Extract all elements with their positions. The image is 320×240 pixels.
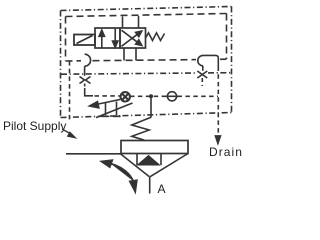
label Drain (209, 145, 243, 159)
seat diagonal right (150, 154, 188, 177)
valve V1 square2 crossed arrows (122, 30, 142, 46)
relief valve RV1 legs (105, 103, 107, 115)
wire manifold dashed line right part (208, 72, 231, 74)
spring S2 main valve (132, 117, 151, 140)
orifice O1 (166, 92, 178, 101)
wire manifold dashed line (61, 73, 197, 74)
seat diagonal left (121, 154, 150, 177)
valve V1 square1 up arrow (99, 29, 118, 48)
valve V1 position square 2 (120, 28, 146, 48)
wire junction to spring (150, 96, 152, 117)
wire right drop continue (201, 78, 203, 86)
label A (158, 182, 166, 196)
valve V1 square1 down arrow (114, 29, 116, 41)
relief valve RV1 leg feet (102, 115, 110, 117)
wire drain line (217, 67, 219, 136)
wire pilot dashed line (95, 95, 120, 97)
poppet triangle (138, 156, 160, 166)
solenoid U1 coil box (74, 35, 95, 46)
drain arrowhead (215, 136, 220, 144)
wire top port lines (122, 17, 124, 29)
wire left drop continue (84, 84, 86, 88)
valve V1 position square 1 (95, 28, 120, 48)
node junction dot (149, 94, 153, 98)
node plug X left (80, 77, 91, 84)
wire pilot supply vertical (69, 61, 71, 123)
wire left connector drop (84, 66, 86, 76)
relief valve RV1 arrow (90, 100, 121, 108)
enclosure inner dashed box (pilot valve subplate) (66, 14, 227, 62)
node circle X gauge (121, 92, 130, 101)
wire port A line (149, 177, 151, 194)
spring S1 on valve right (146, 33, 165, 41)
main valve body rectangle (121, 141, 188, 154)
wire left port line (66, 153, 121, 155)
node plug X right (197, 71, 207, 78)
flow curved arrow (101, 160, 137, 192)
wire right connector drop (202, 66, 204, 71)
node right connector elbow (198, 55, 219, 66)
relief valve RV1 slash (96, 103, 133, 118)
wire bottom port lines (123, 48, 125, 61)
node left connector loop (85, 54, 91, 66)
enclosure outer chain box (61, 7, 232, 118)
poppet seat walls (136, 154, 138, 166)
label pilot supply pointer (0, 0, 248, 200)
